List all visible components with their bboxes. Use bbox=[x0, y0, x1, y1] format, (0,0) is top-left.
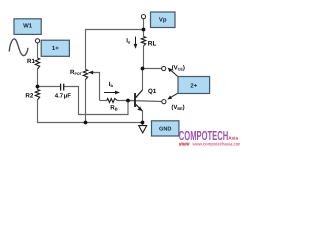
svg-text:R2: R2 bbox=[25, 92, 33, 99]
svg-text:GND: GND bbox=[159, 127, 171, 133]
svg-text:Io: Io bbox=[126, 38, 131, 45]
svg-text:RB: RB bbox=[110, 104, 117, 111]
svg-text:(VCE): (VCE) bbox=[172, 64, 185, 71]
svg-text:2+: 2+ bbox=[190, 82, 197, 89]
svg-text:####: #### bbox=[179, 142, 190, 148]
svg-text:Vp: Vp bbox=[159, 16, 167, 23]
svg-text:RPOT: RPOT bbox=[70, 69, 83, 76]
svg-text:Ib: Ib bbox=[109, 81, 114, 88]
svg-text:R1: R1 bbox=[27, 58, 35, 65]
svg-text:RL: RL bbox=[148, 41, 157, 48]
svg-text:(VBE): (VBE) bbox=[171, 104, 184, 111]
svg-text:Asia: Asia bbox=[228, 135, 238, 140]
svg-text:W1: W1 bbox=[23, 22, 33, 29]
svg-text:4.7µF: 4.7µF bbox=[55, 93, 71, 100]
svg-text:1+: 1+ bbox=[52, 45, 59, 52]
svg-text:www.compotechasia.com: www.compotechasia.com bbox=[192, 142, 240, 147]
svg-text:Q1: Q1 bbox=[148, 88, 157, 95]
